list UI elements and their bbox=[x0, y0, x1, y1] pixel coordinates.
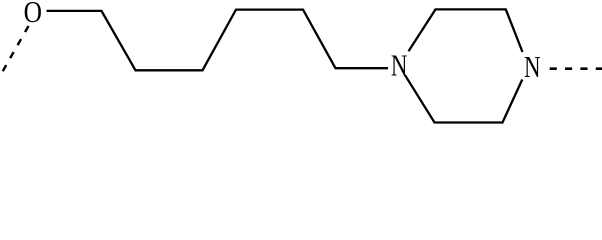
svg-text:N: N bbox=[391, 48, 408, 82]
svg-text:O: O bbox=[24, 0, 42, 30]
svg-text:N: N bbox=[524, 50, 541, 84]
